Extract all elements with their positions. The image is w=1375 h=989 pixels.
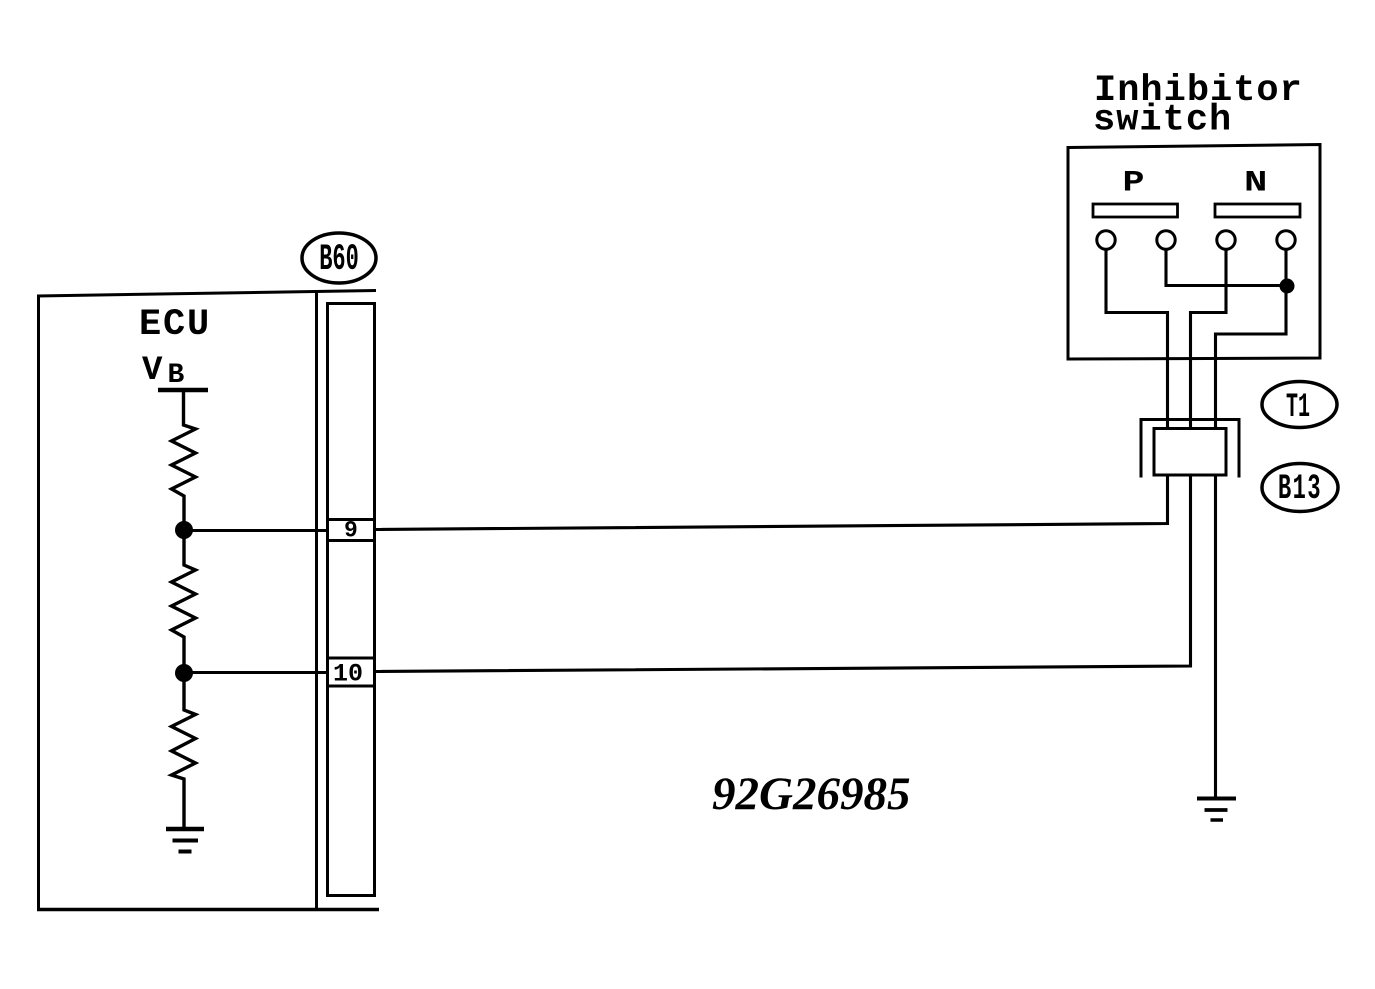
resistor R2: [172, 530, 196, 673]
junction dot inhibitor: [1280, 279, 1295, 294]
svg-text:B: B: [168, 360, 185, 391]
ECU box: [37, 295, 40, 909]
terminal circle 3: [1217, 231, 1235, 249]
terminal circle 4: [1277, 231, 1295, 249]
wire inhibitor terminal 2 to junction: [1166, 249, 1287, 286]
terminal circle 1: [1097, 231, 1115, 249]
svg-text:N: N: [1244, 166, 1267, 200]
terminal circle 2: [1157, 231, 1175, 249]
svg-text:V: V: [142, 352, 163, 390]
P contact bar: [1093, 204, 1178, 217]
node A (junction dot R1/R2): [175, 521, 193, 539]
inhibitor switch box: [1068, 145, 1320, 360]
wire pin 10 long to inhibitor connector: [375, 249, 1226, 672]
connector T1/B13 outer shell: [1141, 420, 1239, 478]
svg-text:switch: switch: [1093, 100, 1232, 142]
svg-text:P: P: [1123, 166, 1145, 200]
Vb supply bar: [158, 388, 208, 393]
ellipse B13: [1262, 464, 1338, 512]
node B (junction dot R2/R3): [175, 664, 193, 682]
wire pin 9 long to inhibitor connector: [375, 249, 1168, 530]
ellipse B60: [302, 233, 376, 283]
svg-text:92G26985: 92G26985: [712, 768, 910, 820]
svg-text:ECU: ECU: [139, 304, 211, 346]
connector B60 body: [328, 304, 375, 896]
resistor R1: [172, 392, 196, 530]
svg-text:9: 9: [344, 518, 358, 544]
pin 9 box: [328, 520, 375, 541]
ground right: [1197, 799, 1236, 821]
wire inhibitor terminal 4 to ground: [1216, 249, 1287, 798]
ellipse T1: [1262, 382, 1337, 428]
svg-text:T1: T1: [1286, 389, 1310, 427]
svg-text:B60: B60: [319, 239, 359, 282]
wire node1 to pin 9: [186, 529, 327, 532]
connector T1/B13 inner plug: [1154, 429, 1226, 476]
ground ECU: [166, 829, 204, 852]
svg-text:B13: B13: [1278, 469, 1322, 509]
wire node2 to pin 10: [186, 671, 327, 674]
resistor R3: [172, 673, 196, 827]
N contact bar: [1215, 204, 1300, 217]
svg-text:10: 10: [333, 660, 363, 689]
pin 10 box: [328, 658, 375, 686]
